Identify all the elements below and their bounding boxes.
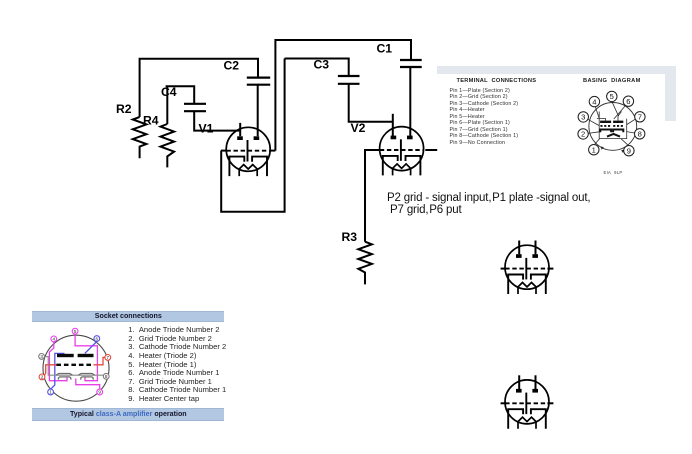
basing connector pin5 <box>612 102 619 117</box>
wire V1 grid right tick <box>269 150 275 152</box>
wire V1 grid left tick <box>221 150 227 152</box>
svg-text:5: 5 <box>74 329 77 334</box>
wire node B horizontal loop to C3 <box>285 59 349 77</box>
basing connector pin3 <box>588 119 600 125</box>
basing connector pin4 <box>595 107 599 119</box>
svg-text:1: 1 <box>49 390 52 395</box>
capacitor C3 <box>338 76 360 84</box>
svg-text:8: 8 <box>638 130 642 139</box>
socket grid dashes <box>56 364 93 366</box>
basing envelope circle <box>589 103 637 151</box>
svg-text:8: 8 <box>105 374 108 379</box>
basing enclosure <box>599 112 627 139</box>
wire V2 grid pin lead <box>392 114 394 136</box>
svg-text:6: 6 <box>626 97 630 106</box>
svg-text:7: 7 <box>638 113 642 122</box>
basing plate lead right <box>618 112 622 121</box>
socket wire heater tap pin9 <box>76 379 100 390</box>
socket wire cathode pin3 pin8 <box>44 357 103 376</box>
socket plate left <box>57 354 74 357</box>
svg-text:3: 3 <box>40 354 43 359</box>
basing heater <box>607 134 620 137</box>
basing circle arrows <box>601 146 604 150</box>
svg-text:6: 6 <box>96 336 99 341</box>
svg-text:R3: R3 <box>342 230 358 244</box>
triode tube spare lower <box>501 375 554 428</box>
socket wire anode pin6 <box>85 342 97 354</box>
wire C4 input net <box>166 86 195 104</box>
datasheet panel right strip <box>665 74 676 121</box>
socket box footer text <box>32 410 224 418</box>
socket cathode left <box>56 374 72 380</box>
svg-text:4: 4 <box>592 97 596 106</box>
basing plate lead left <box>597 118 606 120</box>
svg-text:2: 2 <box>581 130 585 139</box>
wire V1 grid pin lead <box>239 123 241 136</box>
svg-text:C1: C1 <box>377 41 393 55</box>
basing diagram svg <box>576 88 648 160</box>
basing pin circles <box>578 91 645 156</box>
socket plate right <box>78 354 94 357</box>
socket pin circles <box>39 328 111 395</box>
svg-text:4: 4 <box>53 337 56 342</box>
basing connector pin6 <box>614 105 626 119</box>
socket pin numbers <box>40 329 109 395</box>
svg-text:5: 5 <box>610 92 614 101</box>
wire node A horizontal C3grid to C1 <box>275 40 411 151</box>
socket wire grid pin2 <box>44 365 57 376</box>
wire V2 grid left to R3 <box>365 150 380 242</box>
basing connector pin8 <box>627 132 635 133</box>
svg-text:7: 7 <box>107 355 110 360</box>
resistor R2 <box>133 117 147 158</box>
socket wire heater pin5 <box>75 334 97 381</box>
socket wire grid pin7 <box>94 357 106 364</box>
basing connector pin1 <box>594 139 599 145</box>
svg-text:V1: V1 <box>199 121 214 135</box>
svg-text:2: 2 <box>41 375 44 380</box>
triode tube spare upper <box>501 241 554 295</box>
socket box header bar <box>32 311 224 322</box>
svg-text:V2: V2 <box>351 121 366 135</box>
wire V1 cathode loop around bottom <box>221 59 284 212</box>
basing cathode left <box>600 130 611 133</box>
wire top-left horizontal R2 to C2 <box>140 59 258 117</box>
svg-text:9: 9 <box>98 390 101 395</box>
resistor R3 <box>358 242 372 285</box>
capacitor C2 <box>247 78 270 85</box>
resistor R4 <box>161 124 175 167</box>
socket cathode right <box>78 374 94 380</box>
triode tube V1 <box>226 127 270 176</box>
svg-text:C3: C3 <box>314 58 330 72</box>
heading TERMINAL CONNECTIONS <box>457 78 537 84</box>
wire C1 bottom to V2 plate pin <box>409 67 411 136</box>
socket wire heater pin4 <box>49 342 67 381</box>
basing connector pin2 <box>588 132 599 134</box>
capacitor C4 <box>184 104 206 111</box>
wire C4 to V1 grid-pin <box>194 111 240 130</box>
basing cathode right <box>613 130 623 133</box>
svg-text:C2: C2 <box>224 59 240 73</box>
basing grid dashes <box>600 125 623 127</box>
wire C3 bottom to V2 grid pin <box>349 84 393 122</box>
socket box header text <box>32 312 224 320</box>
socket envelope circle <box>43 335 109 401</box>
heading BASING DIAGRAM <box>583 78 641 84</box>
socket wire anode pin1 <box>51 353 65 389</box>
basing plate right <box>613 121 623 123</box>
caption text P2 grid signal <box>387 192 590 217</box>
pin list terminal connections <box>450 88 519 147</box>
svg-text:3: 3 <box>581 113 585 122</box>
socket diagram svg <box>34 326 116 406</box>
wire C2 bottom to V1 plate pin <box>257 85 259 137</box>
svg-text:C4: C4 <box>161 85 177 99</box>
basing plate left <box>600 121 611 123</box>
wire V2 grid right tick <box>425 149 437 151</box>
svg-text:1: 1 <box>592 145 596 154</box>
wire R4 top stub <box>166 86 168 124</box>
triode tube V2 <box>380 127 424 176</box>
socket pin list <box>128 326 226 404</box>
basing connector pin9 <box>621 139 628 146</box>
capacitor C1 <box>400 60 422 67</box>
socket box footer bar <box>32 408 224 421</box>
svg-text:R4: R4 <box>143 113 159 127</box>
label EIA 9LP <box>604 170 623 175</box>
svg-text:R2: R2 <box>116 102 132 116</box>
datasheet panel background band <box>437 66 676 74</box>
svg-text:9: 9 <box>627 146 631 155</box>
basing pin numbers <box>581 92 642 155</box>
basing connector pin7 <box>627 119 636 124</box>
